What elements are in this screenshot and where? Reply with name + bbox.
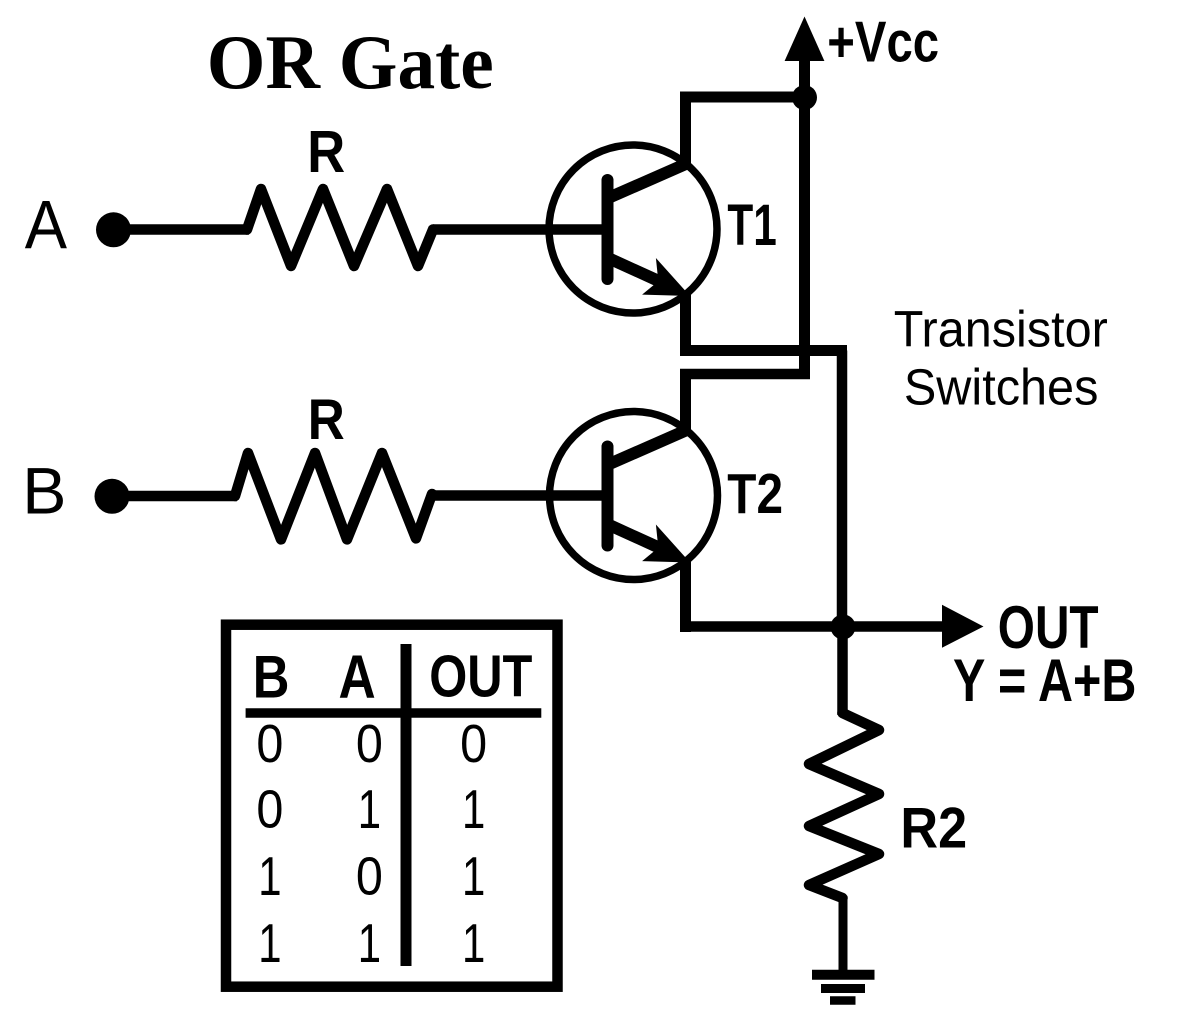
svg-text:0: 0 [256, 780, 283, 840]
svg-text:B: B [22, 455, 66, 528]
wire T1 emitter lead [680, 292, 691, 356]
svg-text:R2: R2 [900, 797, 967, 861]
resistor R (input A) [247, 189, 433, 266]
truth table header rule [246, 708, 542, 718]
resistor R2 [837, 627, 848, 715]
ground [812, 975, 875, 1001]
svg-text:OR Gate: OR Gate [207, 19, 494, 105]
truth table column divider [401, 644, 412, 966]
wire output branch vertical [837, 351, 848, 628]
+Vcc rail wire [799, 45, 810, 379]
svg-text:OUT: OUT [429, 645, 532, 710]
svg-text:1: 1 [462, 845, 485, 907]
wire T1 emitter to output branch (upper horizontal) [680, 345, 847, 356]
wire T2 collector to Vcc rail (lower horizontal) [680, 369, 810, 380]
resistor R (input B) [235, 453, 432, 539]
junction dot Vcc node [792, 85, 817, 110]
svg-text:1: 1 [258, 912, 281, 974]
wire T1 collector lead [680, 97, 691, 166]
svg-text:Transistor: Transistor [894, 300, 1108, 357]
wire T2 emitter lead [680, 558, 691, 632]
transistor T2 [550, 412, 718, 580]
wire R2 to ground [839, 896, 848, 975]
wire output horizontal [680, 621, 950, 632]
wire B resistor to T2 base [432, 490, 604, 501]
wire T1 collector to Vcc rail [680, 92, 810, 103]
input terminal dot B [95, 479, 130, 514]
svg-text:Y = A+B: Y = A+B [953, 647, 1136, 714]
wire A resistor to T1 base [433, 224, 604, 235]
svg-text:1: 1 [358, 778, 381, 840]
output arrowhead [942, 605, 984, 648]
svg-text:0: 0 [356, 714, 383, 774]
svg-text:T2: T2 [727, 462, 783, 525]
transistor T1 [549, 145, 717, 313]
svg-text:1: 1 [462, 778, 485, 840]
svg-text:A: A [25, 186, 67, 263]
svg-text:Switches: Switches [904, 359, 1099, 416]
svg-text:0: 0 [356, 846, 383, 906]
svg-text:B: B [253, 642, 290, 710]
svg-text:+Vcc: +Vcc [827, 11, 939, 75]
svg-text:0: 0 [256, 714, 283, 774]
svg-text:1: 1 [462, 912, 485, 974]
svg-text:R: R [307, 118, 345, 185]
output node dot [831, 614, 856, 639]
svg-text:0: 0 [460, 714, 487, 774]
wire B input to resistor [111, 491, 237, 502]
svg-text:1: 1 [358, 912, 381, 974]
wire T2 collector lead [680, 374, 691, 433]
wire A input to resistor [113, 224, 249, 235]
+Vcc arrow [785, 17, 825, 62]
svg-text:T1: T1 [727, 193, 776, 258]
truth table border [226, 625, 558, 987]
svg-text:A: A [339, 643, 376, 712]
svg-text:1: 1 [258, 845, 281, 907]
input terminal dot A [96, 212, 131, 247]
svg-text:R: R [308, 388, 345, 452]
